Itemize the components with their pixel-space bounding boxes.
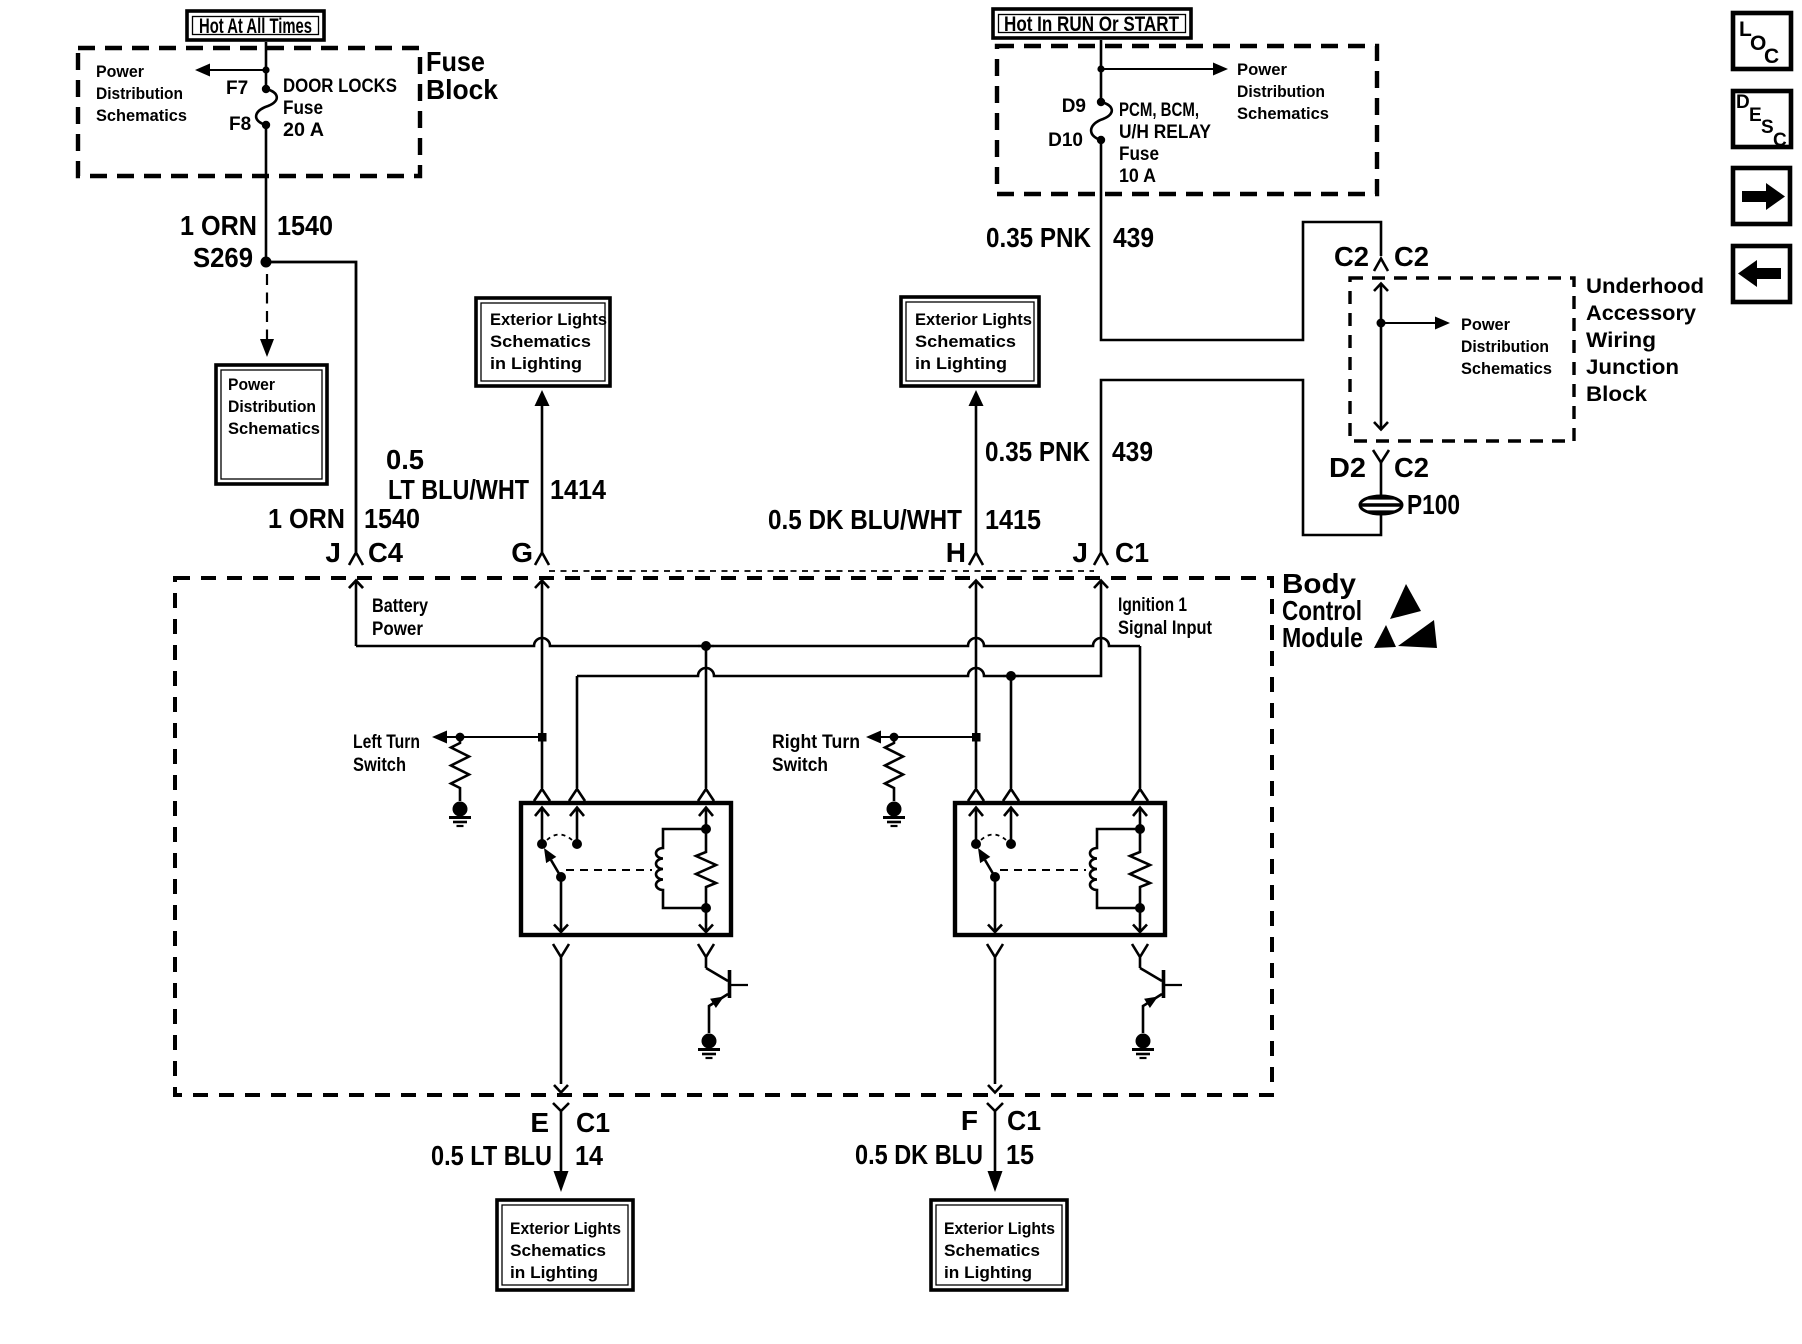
svg-text:C2: C2: [1334, 241, 1369, 272]
svg-text:Module: Module: [1282, 622, 1363, 653]
svg-text:Fuse: Fuse: [283, 98, 323, 119]
svg-text:Signal Input: Signal Input: [1118, 618, 1213, 639]
svg-text:in Lighting: in Lighting: [915, 354, 1007, 373]
svg-text:0.5: 0.5: [386, 444, 424, 475]
text: Power Distribution Schematics (fuse block): [96, 62, 187, 125]
svg-text:1414: 1414: [550, 474, 606, 505]
wire H up to box with arrow: [969, 390, 984, 552]
svg-text:D9: D9: [1062, 96, 1086, 117]
label: Battery Power: [372, 596, 428, 640]
svg-text:Block: Block: [426, 74, 498, 105]
wire P100 down, left, up, left to J C1: [1101, 380, 1381, 552]
svg-text:D10: D10: [1048, 130, 1083, 151]
svg-text:Power: Power: [96, 62, 144, 81]
svg-text:1 ORN: 1 ORN: [180, 210, 257, 241]
pin G: [511, 537, 549, 568]
left turn flasher relay assembly: [432, 581, 748, 1291]
label: Underhood Accessory Wiring Junction Block: [1586, 275, 1704, 406]
battery power wire (hops over G, H, ignition) to right relay: [356, 638, 1140, 646]
wire fuse to S269: [265, 125, 268, 262]
pin F C1 labels: [961, 1105, 1041, 1136]
svg-text:Schematics: Schematics: [1237, 104, 1329, 123]
svg-text:Exterior Lights: Exterior Lights: [915, 310, 1032, 329]
dashed border (top right fuse area): [997, 46, 1377, 194]
svg-text:F: F: [961, 1105, 978, 1136]
svg-text:P100: P100: [1407, 489, 1460, 520]
svg-text:Fuse: Fuse: [426, 46, 485, 77]
text: Power Distribution Schematics: [1237, 60, 1329, 123]
UAWJB dashed border: [1350, 278, 1574, 441]
pin H: [946, 537, 983, 568]
svg-text:Wiring: Wiring: [1586, 329, 1656, 352]
svg-text:C1: C1: [576, 1107, 610, 1138]
svg-text:1415: 1415: [985, 504, 1041, 535]
svg-text:Hot At All Times: Hot At All Times: [199, 15, 312, 38]
svg-text:439: 439: [1112, 436, 1153, 467]
text: Power Distribution Schematics (UAWJB): [1461, 315, 1552, 378]
svg-text:S269: S269: [193, 242, 253, 273]
connector C2 | C2: [1334, 241, 1429, 272]
svg-text:Distribution: Distribution: [228, 397, 316, 416]
wire from Hot At All Times into fuse block: [265, 42, 268, 88]
svg-text:15: 15: [1006, 1139, 1034, 1170]
box: Exterior Lights Schematics in Lighting (right top): [901, 297, 1039, 386]
svg-text:DOOR LOCKS: DOOR LOCKS: [283, 76, 397, 97]
svg-text:LT BLU/WHT: LT BLU/WHT: [388, 474, 529, 505]
fuse D9/D10 PCM BCM U/H RELAY 10A: [1048, 96, 1211, 187]
label: Left Turn Switch: [353, 732, 420, 776]
svg-text:0.5 DK BLU/WHT: 0.5 DK BLU/WHT: [768, 504, 962, 535]
svg-text:D: D: [1736, 92, 1750, 113]
pin J C4: [325, 537, 403, 588]
fuse F7/F8 DOOR LOCKS 20A: [226, 76, 397, 141]
svg-text:E: E: [1749, 105, 1762, 126]
connector D2 | C2: [1329, 450, 1429, 497]
svg-text:1540: 1540: [277, 210, 333, 241]
svg-text:Left Turn: Left Turn: [353, 732, 420, 753]
ignition wire from J C1 down then left (hops over H, battery branch): [577, 581, 1101, 676]
svg-text:C1: C1: [1007, 1105, 1041, 1136]
right turn flasher relay assembly: [866, 581, 1182, 1291]
fuse block dashed border: [78, 48, 420, 176]
label: Right Turn Switch: [772, 732, 860, 776]
pin arrow J C1 below border: [1094, 581, 1108, 589]
svg-text:H: H: [946, 537, 966, 568]
svg-text:Distribution: Distribution: [96, 84, 183, 103]
arrow to Power Distribution Schematics (right): [1097, 63, 1228, 76]
svg-text:C4: C4: [368, 537, 403, 568]
svg-text:Right Turn: Right Turn: [772, 732, 860, 753]
svg-text:Schematics: Schematics: [490, 332, 591, 351]
label: Ignition 1 Signal Input: [1118, 595, 1213, 639]
svg-text:Battery: Battery: [372, 596, 428, 617]
svg-text:F7: F7: [226, 78, 248, 99]
svg-text:14: 14: [575, 1140, 603, 1171]
box: Power Distribution Schematics: [216, 365, 327, 484]
button LOC: [1733, 13, 1791, 69]
battery junction node: [701, 641, 711, 651]
label box: Hot In RUN Or START: [993, 9, 1191, 38]
label: Body Control Module: [1282, 568, 1363, 653]
svg-text:0.35 PNK: 0.35 PNK: [986, 222, 1091, 253]
svg-text:Power: Power: [228, 375, 275, 394]
svg-text:1540: 1540: [364, 503, 420, 534]
svg-text:G: G: [511, 537, 533, 568]
svg-text:J: J: [325, 537, 341, 568]
svg-text:Distribution: Distribution: [1461, 337, 1549, 356]
wire into block: [1100, 40, 1103, 102]
svg-text:Accessory: Accessory: [1586, 302, 1696, 325]
svg-text:Schematics: Schematics: [915, 332, 1016, 351]
pin J C1: [1072, 537, 1149, 568]
svg-text:Underhood: Underhood: [1586, 275, 1704, 298]
svg-text:439: 439: [1113, 222, 1154, 253]
button DESC: [1733, 91, 1791, 151]
svg-text:Ignition 1: Ignition 1: [1118, 595, 1187, 616]
svg-text:Power: Power: [1461, 315, 1510, 334]
node with arrow to Power Distribution Schematics: [1377, 317, 1451, 330]
pin E C1 labels: [530, 1107, 610, 1138]
wire G up to box with arrow: [535, 390, 550, 552]
svg-text:Distribution: Distribution: [1237, 82, 1325, 101]
svg-text:0.5 DK BLU: 0.5 DK BLU: [855, 1139, 983, 1170]
pin arrow J C4 below border: [349, 581, 363, 647]
svg-text:C1: C1: [1115, 537, 1149, 568]
connector dashed line C1 (G..J): [549, 570, 1094, 572]
svg-text:Hot In RUN Or START: Hot In RUN Or START: [1004, 13, 1179, 36]
svg-text:10 A: 10 A: [1119, 166, 1156, 187]
wire S269 branch right and down to J C4: [266, 262, 356, 552]
BCM dashed border: [175, 578, 1272, 1095]
svg-text:Exterior Lights: Exterior Lights: [490, 310, 607, 329]
svg-text:in Lighting: in Lighting: [490, 354, 582, 373]
box: Exterior Lights Schematics in Lighting (left top): [476, 298, 610, 386]
svg-text:Schematics: Schematics: [1461, 359, 1552, 378]
svg-text:Block: Block: [1586, 383, 1647, 406]
grommet P100: [1360, 489, 1460, 520]
svg-text:0.5 LT BLU: 0.5 LT BLU: [431, 1140, 552, 1171]
ESD symbol: [1374, 584, 1437, 648]
wire fuse down, over to C2 connector: [1101, 140, 1381, 340]
svg-text:C: C: [1773, 130, 1787, 151]
svg-text:C: C: [1764, 45, 1779, 68]
svg-text:0.35 PNK: 0.35 PNK: [985, 436, 1090, 467]
svg-text:E: E: [530, 1107, 549, 1138]
svg-text:1 ORN: 1 ORN: [268, 503, 345, 534]
svg-text:20 A: 20 A: [283, 120, 324, 141]
svg-text:Fuse: Fuse: [1119, 144, 1159, 165]
arrow to Power Distribution Schematics (left): [195, 64, 270, 77]
svg-text:Switch: Switch: [772, 755, 828, 776]
svg-text:D2: D2: [1329, 452, 1366, 483]
svg-text:Power: Power: [1237, 60, 1287, 79]
wire through junction block: [1374, 284, 1388, 431]
node S269: [193, 242, 272, 273]
svg-text:Junction: Junction: [1586, 356, 1679, 379]
dashed arrow S269 to Power Distribution Schematics box: [260, 274, 274, 357]
svg-text:F8: F8: [229, 114, 251, 135]
svg-text:Schematics: Schematics: [96, 106, 187, 125]
button back (left arrow): [1733, 246, 1790, 302]
ignition junction node (right relay coil branch): [1006, 671, 1016, 681]
svg-text:Schematics: Schematics: [228, 419, 320, 438]
svg-text:PCM, BCM,: PCM, BCM,: [1119, 100, 1199, 121]
svg-text:S: S: [1761, 117, 1774, 138]
svg-text:U/H RELAY: U/H RELAY: [1119, 122, 1211, 143]
label box: Hot At All Times: [187, 11, 324, 40]
svg-text:C2: C2: [1394, 241, 1429, 272]
svg-text:Switch: Switch: [353, 755, 406, 776]
svg-text:C2: C2: [1394, 452, 1429, 483]
svg-text:Power: Power: [372, 619, 424, 640]
svg-text:J: J: [1072, 537, 1088, 568]
button next (right arrow): [1733, 168, 1790, 224]
